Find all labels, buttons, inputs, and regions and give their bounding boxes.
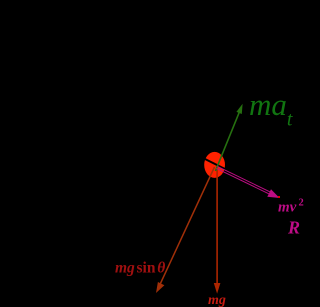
svg-text:2: 2 bbox=[299, 198, 304, 209]
svg-text:θ: θ bbox=[157, 260, 165, 277]
svg-text:sin: sin bbox=[137, 260, 156, 277]
svg-text:mg: mg bbox=[115, 260, 135, 277]
svg-text:mv: mv bbox=[278, 200, 297, 216]
svg-text:mg: mg bbox=[208, 293, 226, 307]
svg-text:R: R bbox=[287, 218, 300, 238]
